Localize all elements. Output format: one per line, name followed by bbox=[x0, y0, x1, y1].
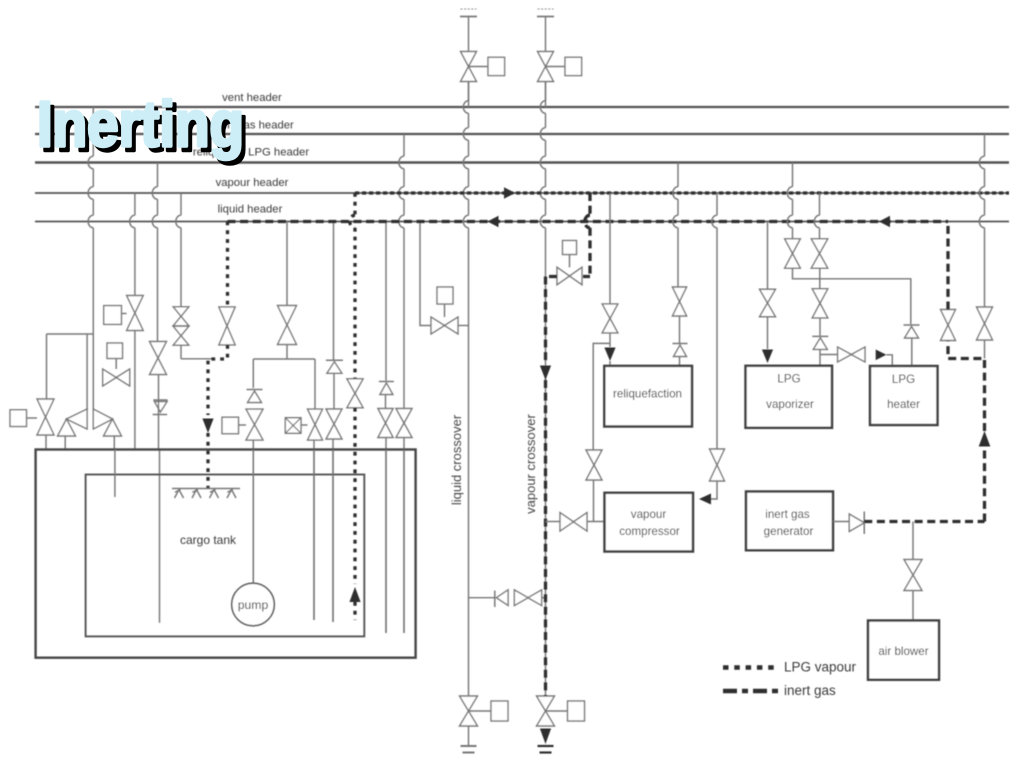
pipe valve to blower bbox=[912, 591, 914, 621]
vapour crossover bottom valve bbox=[537, 696, 555, 726]
LPG vapour overlay on vapour header bbox=[355, 191, 1009, 194]
vapour crossover vent stack valve bbox=[538, 52, 554, 82]
pipe x=984 below valve bbox=[984, 340, 986, 359]
inert gas arrow on liquid header 1 bbox=[488, 216, 499, 228]
valve V-spray-block bbox=[127, 296, 144, 331]
svg-text:generator: generator bbox=[764, 525, 814, 538]
pipe from reliq header x=794 bbox=[787, 163, 792, 240]
svg-text:Inerting: Inerting bbox=[37, 88, 244, 160]
pipe x=386 into annulus bbox=[385, 438, 387, 634]
pipe from vapour header x=819.5 bbox=[814, 193, 819, 239]
valve V-794 bbox=[785, 239, 801, 268]
svg-text:compressor: compressor bbox=[619, 525, 680, 538]
pipe reliq return to tank bbox=[158, 375, 160, 450]
legend LPG vapour line bbox=[723, 665, 779, 669]
pipe from reliq header x=157.5 bbox=[152, 163, 157, 342]
pipe x=334 mid bbox=[333, 374, 335, 410]
valve V-287 bbox=[278, 306, 297, 345]
inert gas overlay on vapour crossover lower bbox=[544, 380, 547, 696]
inert gas into vapour crossover bbox=[546, 275, 558, 278]
valve V-315 bbox=[308, 409, 323, 440]
valve V-blower bbox=[904, 560, 922, 591]
liquid crossover pipe bbox=[463, 82, 468, 697]
manifold bar y=334 bbox=[47, 333, 94, 335]
check valve x=678 bbox=[673, 343, 688, 345]
check valve reliq return bbox=[153, 399, 167, 401]
pipe x=678 into box bbox=[679, 357, 681, 367]
arrow into reliquefaction bbox=[604, 348, 615, 362]
pipe x=315 into tank bbox=[313, 440, 315, 620]
valve V-593 bbox=[586, 450, 602, 480]
liquid crossover vent stack valve bbox=[461, 52, 477, 82]
legend inert gas line bbox=[723, 689, 779, 693]
svg-text:vaporizer: vaporizer bbox=[766, 398, 814, 411]
vapour crossover label bbox=[523, 413, 538, 513]
crossover tie line y=598 bbox=[469, 597, 495, 599]
valve V-tank-1 bbox=[37, 399, 54, 435]
spray nozzle 4 bbox=[227, 490, 236, 499]
pipe into heater top bbox=[911, 339, 913, 367]
check valve pump line bbox=[247, 389, 263, 391]
pipe x=678 mid bbox=[679, 316, 681, 343]
LPG heater box bbox=[870, 366, 938, 425]
pipe from vapour header x=610 bbox=[609, 193, 611, 304]
air blower box bbox=[868, 621, 939, 680]
valve V-inert-cross bbox=[557, 267, 582, 285]
inert gas generator box bbox=[746, 492, 833, 551]
valve V-tie bbox=[514, 590, 541, 606]
pipe x=794 elbow to heater line bbox=[793, 268, 911, 324]
LPG vapour line to spray bbox=[208, 345, 228, 415]
vapour crossover pipe bbox=[540, 82, 545, 697]
valve V-pump bbox=[246, 409, 263, 440]
pipe x=767 lower bbox=[767, 317, 769, 349]
pipe from liquid header x=333.5 bbox=[333, 222, 335, 361]
tank internal pipe x=253 pump line bbox=[252, 450, 254, 584]
valve V-386 bbox=[378, 409, 393, 438]
pipe from reliq header x=678 bbox=[673, 163, 678, 288]
pipe stub into reliquefaction bbox=[609, 361, 611, 366]
check valve x=333.5 bbox=[326, 359, 343, 361]
pump manifold bar y=359 bbox=[253, 358, 315, 360]
check valve x=386 bbox=[379, 381, 394, 383]
svg-text:vapour crossover: vapour crossover bbox=[523, 413, 538, 513]
arrow into compressor bbox=[699, 494, 711, 505]
valve V-dot-2 bbox=[347, 379, 363, 408]
svg-text:cargo tank: cargo tank bbox=[180, 533, 237, 547]
branch to compressor line bbox=[593, 343, 610, 450]
pipe x=717 elbow bbox=[711, 481, 717, 499]
inert gas drop from vapour header x=590 bbox=[585, 193, 590, 277]
cross valve y=377.5 bbox=[103, 369, 130, 386]
svg-text:inert gas: inert gas bbox=[765, 508, 810, 521]
tank annulus pipe x=386 bbox=[385, 450, 387, 634]
LPG vapour line from liquid header x=227.5 bbox=[226, 222, 229, 308]
svg-text:LPG: LPG bbox=[892, 373, 915, 386]
valve V-819a bbox=[811, 239, 828, 268]
valve V-767 bbox=[760, 289, 776, 317]
tank annulus pipe x=404 bbox=[403, 450, 405, 634]
valve V-819b bbox=[812, 289, 828, 318]
pipe manifold left leg x=46.5 bbox=[46, 334, 48, 399]
svg-text:air blower: air blower bbox=[878, 645, 928, 658]
valve V-dot-1 bbox=[219, 307, 235, 345]
spray nozzle 3 bbox=[210, 490, 219, 499]
spray rail bbox=[172, 488, 240, 490]
valve V-comp-feed bbox=[560, 513, 587, 532]
pipe x=404 into annulus bbox=[403, 438, 405, 634]
vapour crossover vent stack bbox=[538, 8, 554, 10]
check valve generator outlet bbox=[849, 514, 864, 532]
liquid crossover bottom valve bbox=[460, 696, 478, 726]
svg-text:inert gas: inert gas bbox=[784, 683, 836, 698]
angle valve right bbox=[93, 409, 112, 429]
heater branch line bbox=[820, 354, 838, 356]
inert gas overlay on liquid header bbox=[228, 220, 949, 223]
svg-text:liquid header: liquid header bbox=[218, 204, 283, 216]
pipe from vapour header x=134.9 bbox=[130, 193, 135, 296]
valve V-678 bbox=[672, 287, 686, 316]
svg-text:pump: pump bbox=[238, 598, 269, 612]
double valve x=181 bbox=[173, 307, 189, 326]
pipe from inert header x=984.5 bbox=[979, 134, 984, 307]
valve V-404 bbox=[396, 409, 412, 438]
pipe x=134.9 lower bbox=[134, 331, 136, 450]
compressor feed from crossover bbox=[546, 521, 561, 523]
pipe from vent header x=93 bbox=[88, 107, 93, 334]
check valve x=820 bbox=[812, 335, 828, 337]
valve V-984 bbox=[977, 307, 993, 340]
pipe from liquid header x=767.5 bbox=[767, 222, 769, 290]
pipe x=820 mid2 bbox=[819, 318, 821, 336]
inert gas header bbox=[35, 133, 1009, 135]
liquid crossover drain bbox=[468, 726, 470, 746]
inert gas arrow on liquid header 2 bbox=[879, 216, 890, 228]
valve V-610 bbox=[602, 304, 618, 333]
pipe from vapour header x=717 bbox=[712, 193, 717, 450]
svg-text:reliquefaction: reliquefaction bbox=[613, 388, 682, 401]
pipe branch elbow into heater bbox=[886, 355, 892, 367]
LPG vapour arrow on vapour header bbox=[504, 187, 515, 199]
LPG vapour riser x=355 bbox=[350, 193, 355, 379]
pipe x=334 into tank bbox=[332, 439, 334, 622]
inert gas mid arrow bbox=[540, 366, 551, 381]
X actuator box bbox=[285, 418, 301, 434]
svg-text:LPG: LPG bbox=[777, 373, 800, 386]
valve V-334 bbox=[326, 409, 342, 439]
pipe x=610 lower bbox=[609, 333, 611, 347]
vapour crossover vent stack pipe to vent header bbox=[545, 82, 547, 108]
arrow to heater bbox=[876, 350, 887, 361]
angle valve left bbox=[67, 409, 88, 429]
spray nozzle 2 bbox=[192, 490, 201, 499]
inert gas overlay on vapour crossover upper bbox=[544, 277, 547, 365]
pipe valve to liquid crossover bbox=[458, 325, 469, 327]
inert gas to liquid header bbox=[946, 222, 949, 310]
pipe x=287 to manifold bbox=[286, 345, 288, 360]
check valve heater feed bbox=[904, 324, 920, 326]
inert gas riser dashes bbox=[983, 447, 986, 522]
tank internal pipe x=115 bbox=[114, 450, 116, 498]
vapour crossover drain bbox=[540, 729, 551, 745]
valve V-reliq-return bbox=[150, 342, 167, 375]
pipe liquid header branch x=420 bbox=[420, 222, 431, 326]
pipe x=820 to junction bbox=[819, 350, 821, 366]
svg-text:vapour: vapour bbox=[631, 508, 667, 521]
pipe from inert header x=404 bbox=[399, 134, 404, 409]
reliquefaction box bbox=[604, 366, 692, 427]
valve V-liq-crossover bbox=[431, 317, 458, 334]
liquid crossover vent stack pipe to vent header bbox=[468, 82, 470, 108]
LPG vapour riser lower bbox=[353, 408, 356, 584]
pipe from liquid header x=287 bbox=[286, 222, 288, 306]
pipe valve to compressor bbox=[587, 521, 605, 523]
pipe manifold right leg x=315 bbox=[314, 359, 316, 409]
svg-text:liquid crossover: liquid crossover bbox=[449, 414, 464, 505]
valve V-heater-branch bbox=[838, 347, 865, 362]
pipe pump upper bbox=[252, 359, 254, 388]
pipe pump lower bbox=[252, 440, 254, 583]
vapour header bbox=[35, 192, 1009, 194]
svg-text:vapour header: vapour header bbox=[216, 177, 289, 189]
tank internal pipe x=333 bbox=[332, 450, 334, 623]
pump circle bbox=[232, 583, 275, 626]
arrow into vaporizer bbox=[762, 350, 773, 364]
pipe x=93.3 lower bbox=[92, 334, 94, 410]
tank internal pipe x=314 bbox=[313, 450, 315, 621]
pipe x=181 to junction bbox=[180, 345, 182, 359]
liquid crossover vent stack bbox=[461, 8, 477, 10]
pipe x=819 mid1 bbox=[819, 268, 821, 288]
generator outlet stub bbox=[833, 521, 849, 523]
svg-text:heater: heater bbox=[887, 398, 920, 411]
check valve tie line bbox=[494, 591, 496, 607]
spray nozzle 1 bbox=[175, 490, 184, 499]
LPG vaporizer box bbox=[746, 366, 833, 428]
pipe from vapour header x=181 bbox=[176, 193, 181, 307]
pipe x=593 to compressor feed bbox=[593, 480, 595, 522]
svg-text:LPG vapour: LPG vapour bbox=[784, 660, 857, 675]
cargo tank inner shell bbox=[86, 475, 365, 637]
liquid header bbox=[35, 221, 1009, 223]
pipe from liquid header x=386 bbox=[385, 222, 387, 381]
cargo tank outer shell bbox=[36, 450, 416, 658]
pipe valve to tank bbox=[45, 435, 47, 450]
valve V-717 bbox=[710, 449, 725, 481]
valve V-948 bbox=[941, 310, 956, 341]
vapour compressor box bbox=[605, 493, 694, 552]
air line branch bbox=[912, 522, 914, 560]
vent header bbox=[35, 106, 1009, 108]
liquid crossover label bbox=[449, 414, 464, 505]
pipe x=386 mid bbox=[385, 395, 387, 409]
pipe manifold mid leg x=87.1 bbox=[86, 334, 88, 410]
inert gas main horizontal bbox=[864, 520, 984, 523]
reliquefied LPG header bbox=[35, 161, 1009, 164]
